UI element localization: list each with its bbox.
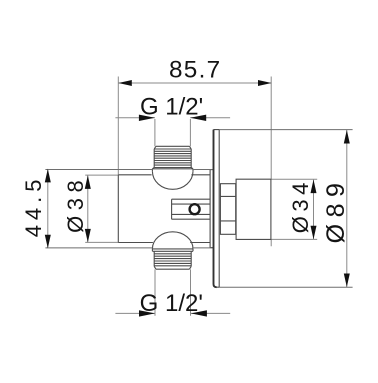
svg-text:Ø34: Ø34 [288, 178, 313, 233]
svg-text:G 1/2': G 1/2' [140, 93, 203, 120]
svg-text:G 1/2': G 1/2' [140, 290, 203, 317]
svg-text:Ø38: Ø38 [63, 175, 88, 233]
svg-text:Ø89: Ø89 [322, 177, 350, 244]
svg-text:85.7: 85.7 [169, 57, 222, 84]
svg-text:44.5: 44.5 [21, 174, 46, 237]
